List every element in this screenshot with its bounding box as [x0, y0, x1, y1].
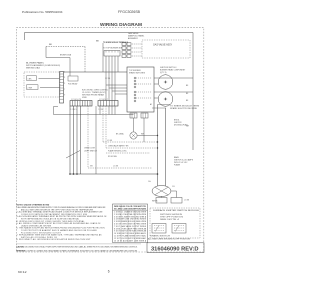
wire bundle verticals	[106, 56, 127, 101]
svg-text:FLAME: FLAME	[174, 164, 181, 167]
wire color table	[113, 204, 148, 243]
gas valve dashed wires	[132, 44, 142, 56]
diagram dashed border	[16, 28, 204, 252]
svg-text:L 1 BK: L 1 BK	[113, 166, 119, 168]
wire dashed upper left	[46, 46, 85, 48]
oven lamp	[130, 132, 137, 139]
EOC small box	[68, 76, 78, 81]
wire vertical x85 dashed	[84, 47, 86, 73]
svg-text:7: 7	[64, 89, 65, 91]
svg-text:316046090 REV:D: 316046090 REV:D	[151, 246, 199, 252]
wires from plugs up to motor	[161, 196, 163, 197]
below box connectors	[130, 113, 137, 118]
svg-text:SPARK SWITCH: SPARK SWITCH	[150, 235, 171, 238]
svg-text:GAS VALVE ASSY: GAS VALVE ASSY	[153, 44, 173, 47]
svg-text:(QTY 4): (QTY 4)	[160, 72, 167, 74]
burner igniter 1	[158, 75, 173, 90]
notes block	[17, 205, 108, 242]
svg-text:5: 5	[64, 83, 65, 85]
svg-text:6: 6	[108, 270, 110, 274]
svg-text:LIGHT SWITCH: LIGHT SWITCH	[84, 150, 98, 152]
verticals from P1 long	[69, 106, 71, 174]
svg-text:P24 RELAY: P24 RELAY	[68, 83, 78, 86]
svg-text:1 2 3 4: 1 2 3 4	[105, 78, 110, 80]
svg-text:RR GR WH: RR GR WH	[108, 156, 117, 158]
svg-text:ALL SWITCHES SHOWN IN OFF POSI: ALL SWITCHES SHOWN IN OFF POSITION	[148, 238, 191, 241]
wire lamp to spark line	[137, 135, 157, 137]
wire	[40, 87, 60, 89]
junction dots	[69, 173, 71, 175]
svg-text:1 2 3 4: 1 2 3 4	[99, 109, 104, 111]
gas valve connector grid	[122, 43, 131, 58]
gas valve assy dashed box	[142, 40, 190, 58]
wire top right L1	[25, 33, 194, 151]
svg-text:(ROUND) (FLAT): (ROUND) (FLAT)	[174, 124, 188, 127]
blower panel dashed box	[24, 72, 60, 97]
burner igniter 2	[158, 92, 173, 107]
svg-text:FFGC3026SB: FFGC3026SB	[118, 10, 140, 14]
main bus wire y72	[64, 71, 128, 73]
svg-text:L 1 BK: L 1 BK	[107, 140, 113, 142]
svg-text:SPARK SWITCHES: SPARK SWITCHES	[129, 72, 146, 75]
wire	[46, 47, 70, 58]
top burner switch box	[127, 67, 154, 112]
motor ellipse	[152, 186, 171, 197]
wire vertical x103	[102, 43, 104, 72]
svg-text:SURFACE IGNITER SWITCH MODULE: SURFACE IGNITER SWITCH MODULE	[153, 209, 200, 212]
connector strip P3	[98, 99, 118, 106]
connector strip P2 vertical	[60, 72, 66, 104]
spark verticals	[157, 105, 159, 187]
bottom bus y174	[70, 173, 158, 175]
svg-text:L 1 BK: L 1 BK	[184, 200, 190, 202]
svg-text:Publications No. 5995541034: Publications No. 5995541034	[22, 10, 63, 14]
svg-text:SPARK ELECTRODE WIRE: SPARK ELECTRODE WIRE	[170, 107, 198, 110]
wire from connector to lamp	[133, 118, 135, 132]
svg-text:VIEW: VIEW	[82, 97, 87, 99]
wire	[39, 78, 60, 80]
switch pins	[134, 77, 136, 102]
dashed row C	[106, 152, 150, 154]
dashed vertical from P1	[87, 106, 89, 168]
wires to igniters	[154, 77, 193, 79]
svg-text:FLAME SENSE 4-6 VDC: FLAME SENSE 4-6 VDC	[108, 149, 128, 152]
switch S1	[27, 76, 37, 81]
svg-text:TO TOP BURNER SW: TO TOP BURNER SW	[103, 48, 122, 50]
mid bus wire y114.5	[54, 107, 134, 115]
switch S2	[27, 85, 39, 90]
svg-text:13 18 VT AUXILIARY LINE WIRE A: 13 18 VT AUXILIARY LINE WIRE A	[114, 239, 147, 242]
rev box	[147, 243, 204, 253]
surface igniter dashed box	[150, 208, 200, 238]
verticals from P3	[95, 106, 97, 174]
svg-text:OVEN DOOR: OVEN DOOR	[84, 148, 96, 150]
svg-text:WIRING DIAGRAM: WIRING DIAGRAM	[100, 22, 142, 27]
svg-text:2 WH: 2 WH	[28, 88, 33, 90]
svg-text:60:12: 60:12	[18, 270, 27, 274]
svg-text:CAUTION: DISCONNECT ELECTRICAL: CAUTION: DISCONNECT ELECTRICAL POWER SUP…	[17, 245, 138, 248]
svg-text:BK 18GA: BK 18GA	[116, 133, 124, 136]
svg-text:TO SPARK MODULE TERMINALS: TO SPARK MODULE TERMINALS	[103, 41, 129, 44]
svg-text:3: 3	[64, 77, 65, 79]
svg-text:ATTENTION: COUPER LE COURANT E: ATTENTION: COUPER LE COURANT ELECTRIQUE …	[17, 249, 138, 252]
svg-text:8. RECONNECT ALL GROUNDING DEV: 8. RECONNECT ALL GROUNDING DEVICES AFTER…	[17, 238, 92, 241]
svg-text:BK/WH 18GA: BK/WH 18GA	[60, 54, 72, 57]
door switch diagonal	[66, 151, 80, 159]
svg-text:WH BK: WH BK	[152, 201, 158, 203]
svg-text:9: 9	[64, 95, 65, 97]
svg-text:ASSEMBLY: ASSEMBLY	[128, 37, 139, 40]
small plug boxes under motor	[156, 198, 167, 204]
svg-text:SEE NOTE 4: SEE NOTE 4	[160, 219, 179, 221]
svg-text:OVEN VALVE SAFETY RR: OVEN VALVE SAFETY RR	[108, 145, 129, 148]
separator line	[16, 243, 141, 245]
harness connector box	[104, 51, 120, 57]
connector strip P1	[70, 99, 92, 106]
svg-text:WIRING DIAG: WIRING DIAG	[26, 67, 41, 70]
svg-text:NO. AWG CODE DESCRIPTION RATE: NO. AWG CODE DESCRIPTION RATE	[114, 207, 147, 210]
wire vertical x70	[69, 58, 71, 77]
